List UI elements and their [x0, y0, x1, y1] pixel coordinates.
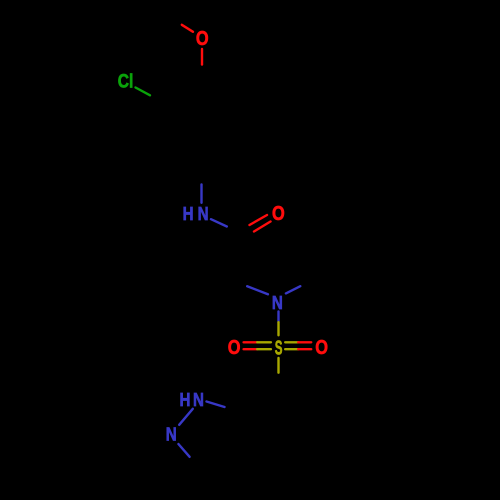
- svg-text:O: O: [272, 201, 285, 224]
- svg-text:N: N: [193, 390, 204, 411]
- svg-text:S: S: [275, 337, 283, 359]
- svg-text:Cl: Cl: [118, 70, 134, 92]
- svg-text:N: N: [272, 292, 283, 313]
- svg-text:N: N: [198, 203, 209, 224]
- svg-text:O: O: [196, 26, 209, 49]
- svg-text:N: N: [166, 424, 177, 445]
- svg-text:O: O: [228, 336, 241, 359]
- svg-text:H: H: [180, 390, 191, 411]
- svg-text:O: O: [315, 336, 328, 359]
- svg-text:H: H: [183, 203, 194, 224]
